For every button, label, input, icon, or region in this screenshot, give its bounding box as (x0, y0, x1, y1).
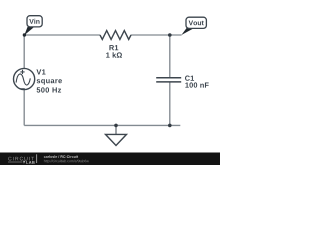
node junction: ground node (114, 124, 118, 128)
footer separator (36, 154, 38, 163)
label C1 value (185, 76, 209, 88)
wire: bottom rail (24, 124, 180, 126)
wire: ground stub (115, 125, 117, 134)
node junction: Vin corner (23, 33, 26, 36)
ground (106, 134, 127, 145)
wire: left vertical lower (V1 bottom to bottom rail) (23, 90, 25, 126)
footer caption line 1 (44, 155, 78, 158)
net flag Vout (181, 17, 206, 35)
node junction: top capacitor node (168, 33, 172, 37)
wire: top-right horizontal (R1 right to Vout stub) (131, 34, 182, 36)
label V1 value (36, 69, 61, 92)
footer caption line 2 (44, 160, 89, 163)
label R1 value (106, 45, 122, 57)
footer banner (0, 153, 220, 166)
wire: capacitor top lead (169, 35, 171, 78)
capacitor C1 (156, 78, 181, 82)
footer logo CIRCUIT LAB (8, 157, 35, 164)
wire: capacitor bottom lead (169, 82, 171, 126)
resistor R1 (100, 31, 131, 40)
wire: left vertical upper (Vin corner to V1 top) (23, 35, 25, 69)
wire: top-left horizontal (Vin node to R1 left) (24, 34, 100, 36)
node junction: bottom capacitor node (168, 124, 172, 128)
voltage source V1 (14, 68, 35, 89)
net flag Vin (24, 16, 42, 36)
